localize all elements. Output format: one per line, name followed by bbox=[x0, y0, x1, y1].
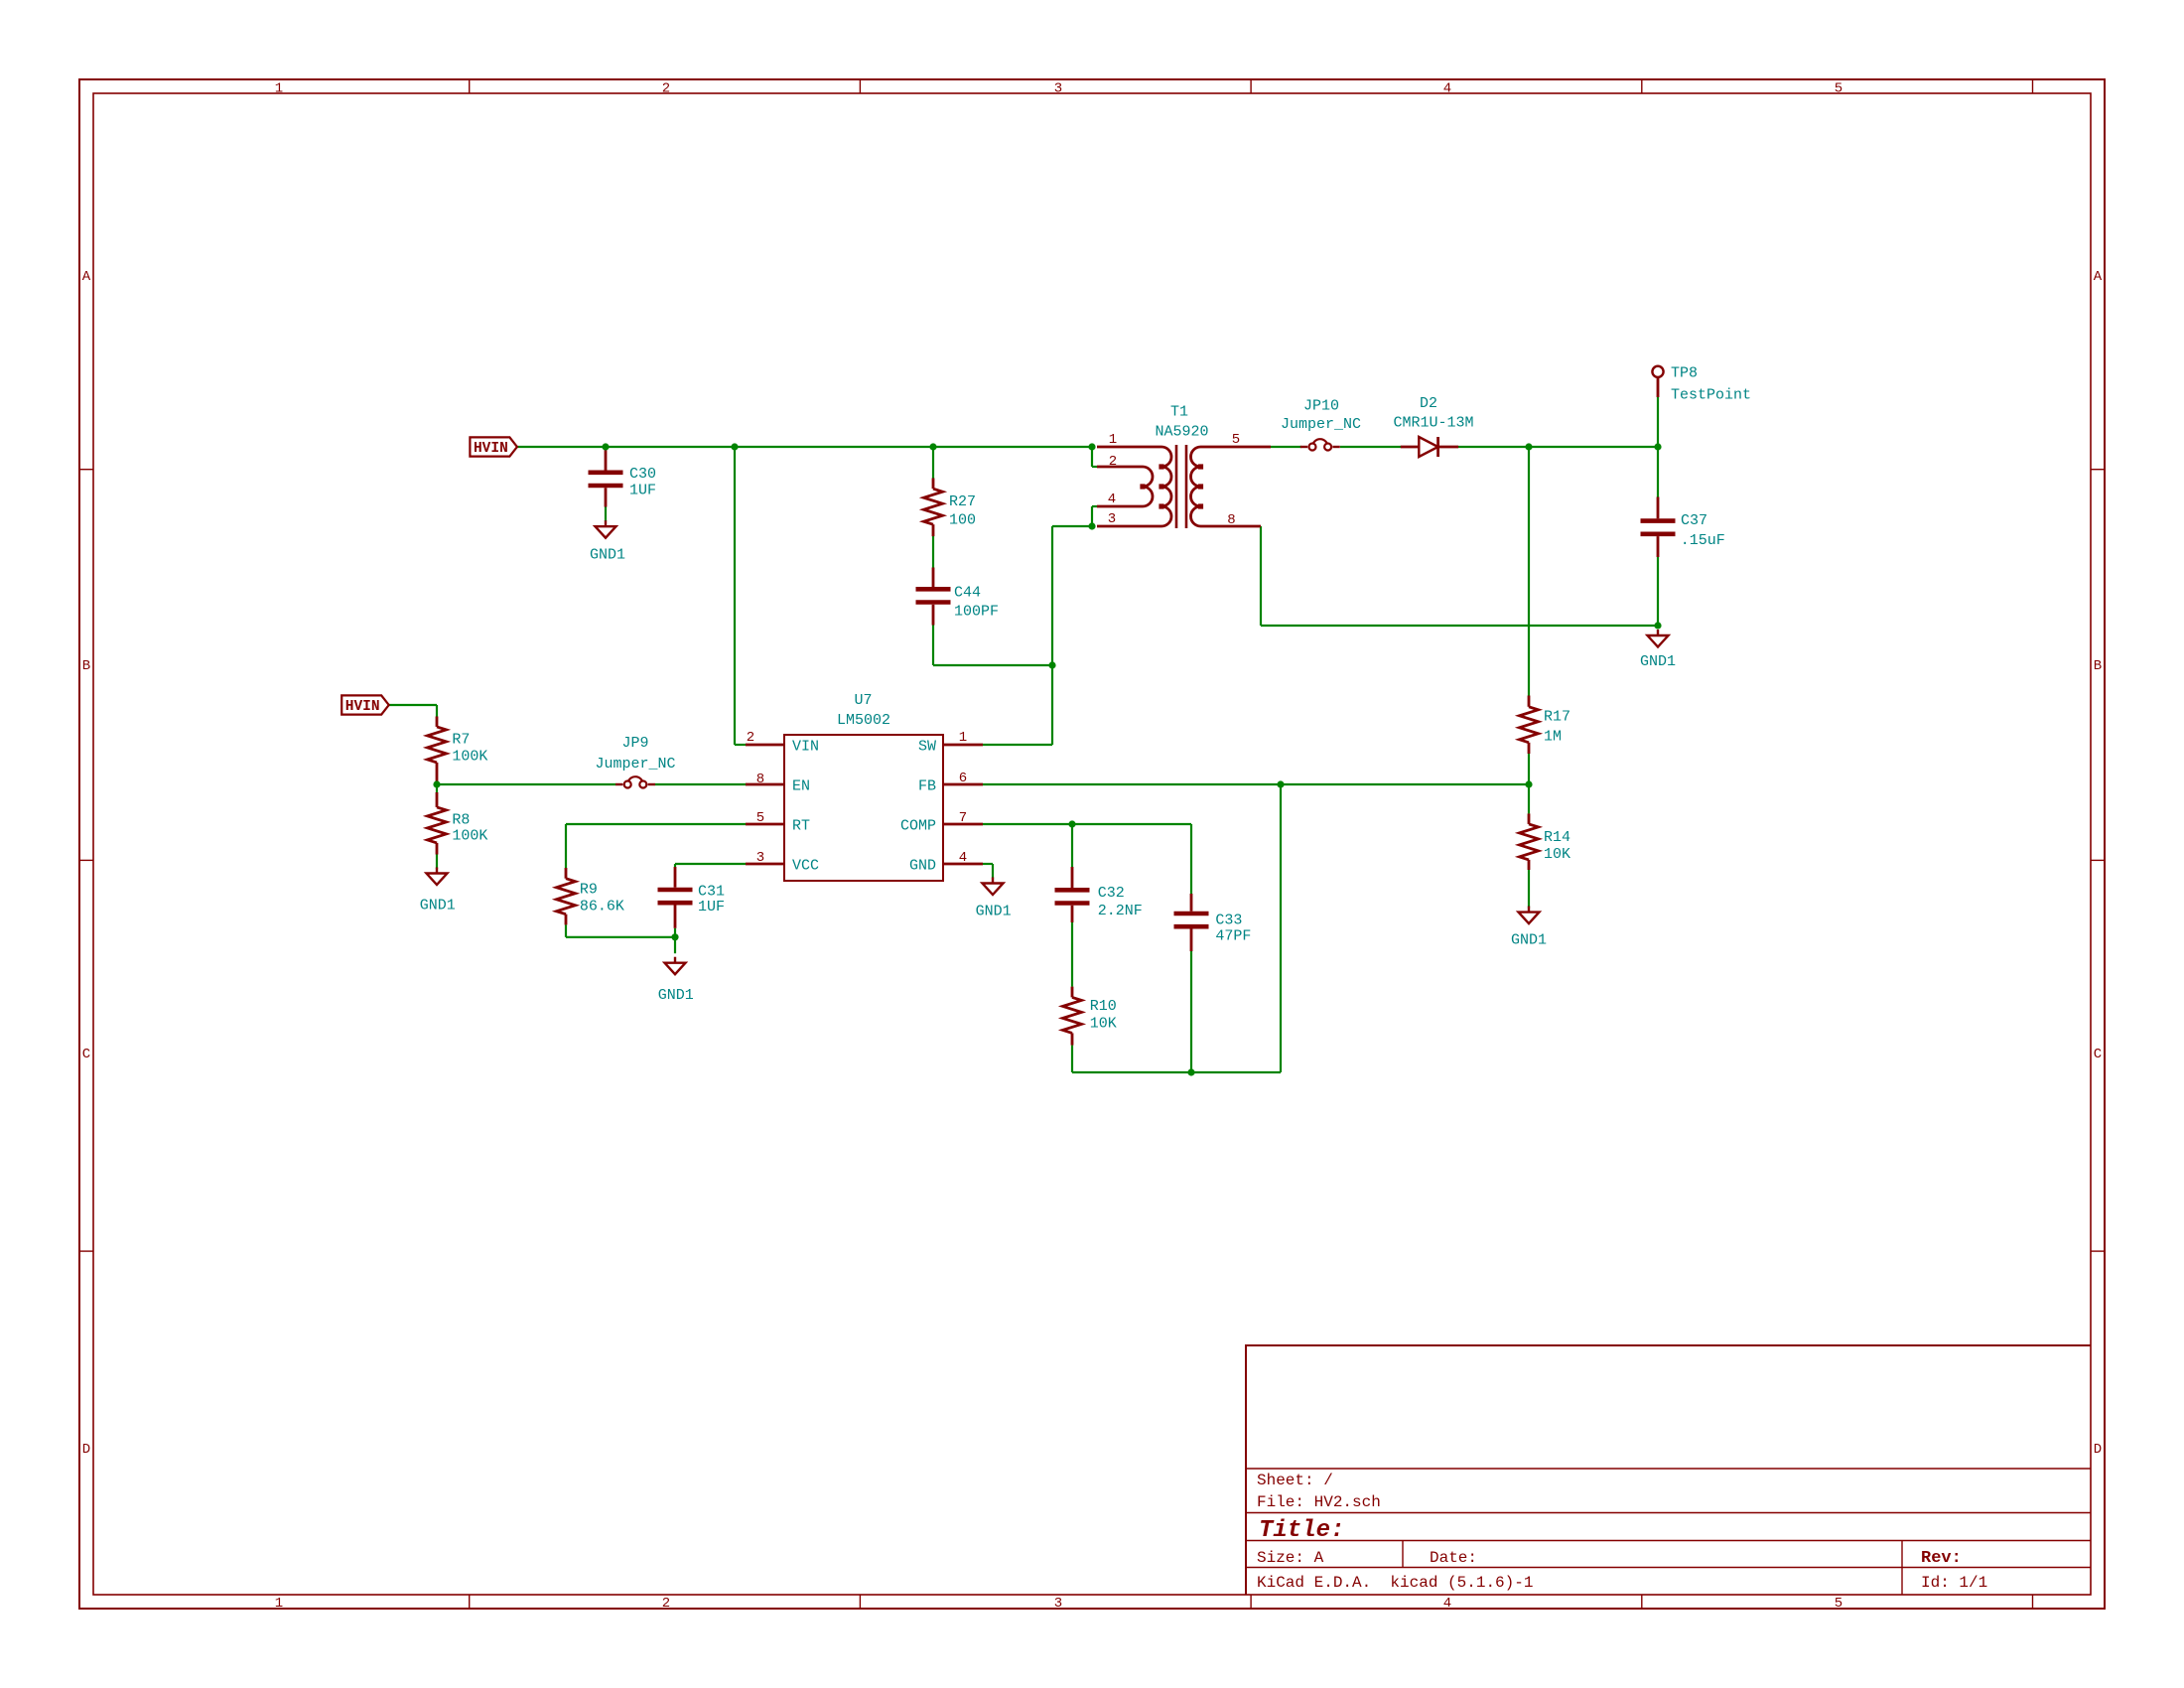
svg-text:GND1: GND1 bbox=[976, 903, 1012, 919]
svg-text:6: 6 bbox=[959, 771, 967, 786]
svg-text:8: 8 bbox=[756, 772, 764, 787]
svg-text:.15uF: .15uF bbox=[1681, 532, 1725, 549]
svg-text:T1: T1 bbox=[1170, 403, 1188, 420]
svg-text:GND: GND bbox=[909, 857, 936, 874]
svg-text:3: 3 bbox=[1108, 511, 1116, 527]
svg-text:1: 1 bbox=[1109, 432, 1117, 448]
svg-text:GND1: GND1 bbox=[658, 987, 694, 1004]
svg-text:1UF: 1UF bbox=[629, 482, 656, 498]
svg-text:U7: U7 bbox=[854, 692, 872, 709]
svg-text:TP8: TP8 bbox=[1671, 364, 1698, 381]
svg-text:A: A bbox=[2094, 269, 2103, 285]
svg-text:Jumper_NC: Jumper_NC bbox=[595, 756, 675, 773]
svg-text:B: B bbox=[82, 658, 90, 674]
svg-text:R17: R17 bbox=[1544, 708, 1570, 725]
svg-text:Jumper_NC: Jumper_NC bbox=[1281, 416, 1361, 433]
svg-text:C37: C37 bbox=[1681, 512, 1707, 529]
svg-text:100: 100 bbox=[949, 511, 976, 528]
svg-text:EN: EN bbox=[792, 777, 810, 794]
svg-text:10K: 10K bbox=[1544, 846, 1570, 863]
svg-text:LM5002: LM5002 bbox=[837, 712, 890, 729]
svg-text:C32: C32 bbox=[1098, 885, 1125, 902]
svg-text:GND1: GND1 bbox=[420, 897, 456, 914]
svg-text:100K: 100K bbox=[452, 749, 487, 766]
svg-text:5: 5 bbox=[1835, 81, 1843, 97]
svg-text:VIN: VIN bbox=[792, 738, 819, 755]
svg-text:HVIN: HVIN bbox=[345, 699, 380, 715]
svg-text:4: 4 bbox=[1443, 1596, 1451, 1612]
svg-text:Title:: Title: bbox=[1259, 1517, 1344, 1544]
svg-text:A: A bbox=[82, 269, 91, 285]
svg-text:NA5920: NA5920 bbox=[1155, 423, 1208, 440]
svg-text:GND1: GND1 bbox=[1511, 931, 1547, 948]
svg-text:4: 4 bbox=[959, 850, 967, 866]
svg-text:Sheet: /: Sheet: / bbox=[1257, 1472, 1333, 1489]
svg-text:47PF: 47PF bbox=[1215, 928, 1251, 945]
svg-text:100PF: 100PF bbox=[954, 603, 999, 620]
svg-text:2: 2 bbox=[1109, 454, 1117, 470]
svg-text:HVIN: HVIN bbox=[474, 441, 508, 457]
svg-text:1: 1 bbox=[275, 1596, 283, 1612]
svg-text:CMR1U-13M: CMR1U-13M bbox=[1393, 415, 1473, 432]
svg-text:JP9: JP9 bbox=[621, 735, 648, 752]
svg-text:JP10: JP10 bbox=[1303, 398, 1339, 415]
svg-text:SW: SW bbox=[918, 738, 936, 755]
svg-text:3: 3 bbox=[1054, 1596, 1062, 1612]
svg-text:C44: C44 bbox=[954, 584, 981, 601]
svg-text:10K: 10K bbox=[1090, 1016, 1117, 1033]
svg-text:2: 2 bbox=[747, 730, 754, 746]
svg-text:KiCad E.D.A. kicad (5.1.6)-1: KiCad E.D.A. kicad (5.1.6)-1 bbox=[1257, 1574, 1533, 1592]
svg-text:Rev:: Rev: bbox=[1921, 1549, 1962, 1568]
svg-text:FB: FB bbox=[918, 777, 936, 794]
svg-text:TestPoint: TestPoint bbox=[1671, 387, 1751, 404]
svg-text:4: 4 bbox=[1443, 81, 1451, 97]
svg-text:D2: D2 bbox=[1420, 395, 1437, 412]
svg-text:R14: R14 bbox=[1544, 829, 1570, 846]
svg-text:GND1: GND1 bbox=[1640, 653, 1676, 670]
svg-text:C31: C31 bbox=[698, 883, 725, 900]
svg-text:1M: 1M bbox=[1544, 729, 1562, 746]
svg-text:R8: R8 bbox=[452, 812, 470, 829]
svg-text:C: C bbox=[2094, 1047, 2102, 1062]
svg-text:3: 3 bbox=[756, 850, 764, 866]
svg-text:Id: 1/1: Id: 1/1 bbox=[1921, 1574, 1987, 1592]
svg-text:4: 4 bbox=[1108, 492, 1116, 507]
svg-text:R10: R10 bbox=[1090, 998, 1117, 1015]
svg-text:File: HV2.sch: File: HV2.sch bbox=[1257, 1493, 1381, 1511]
svg-text:GND1: GND1 bbox=[590, 547, 625, 564]
svg-text:2: 2 bbox=[662, 81, 670, 97]
svg-text:3: 3 bbox=[1054, 81, 1062, 97]
svg-text:C: C bbox=[82, 1047, 90, 1062]
svg-text:1: 1 bbox=[275, 81, 283, 97]
svg-text:C30: C30 bbox=[629, 466, 656, 483]
svg-text:8: 8 bbox=[1227, 512, 1235, 528]
svg-text:5: 5 bbox=[756, 810, 764, 826]
svg-text:2: 2 bbox=[662, 1596, 670, 1612]
svg-text:RT: RT bbox=[792, 817, 810, 834]
svg-text:R9: R9 bbox=[580, 882, 598, 899]
svg-text:D: D bbox=[82, 1442, 90, 1458]
svg-text:100K: 100K bbox=[452, 827, 487, 844]
svg-text:Date:: Date: bbox=[1430, 1549, 1477, 1567]
svg-text:2.2NF: 2.2NF bbox=[1098, 903, 1143, 919]
svg-text:1UF: 1UF bbox=[698, 899, 725, 915]
svg-text:COMP: COMP bbox=[900, 817, 936, 834]
svg-text:Size: A: Size: A bbox=[1257, 1549, 1324, 1567]
svg-text:VCC: VCC bbox=[792, 857, 819, 874]
svg-text:R27: R27 bbox=[949, 493, 976, 510]
svg-text:D: D bbox=[2094, 1442, 2102, 1458]
svg-text:5: 5 bbox=[1835, 1596, 1843, 1612]
svg-text:B: B bbox=[2094, 658, 2102, 674]
svg-text:86.6K: 86.6K bbox=[580, 899, 624, 915]
svg-text:1: 1 bbox=[959, 730, 967, 746]
svg-text:R7: R7 bbox=[452, 731, 470, 748]
svg-text:7: 7 bbox=[959, 810, 967, 826]
svg-text:C33: C33 bbox=[1215, 912, 1242, 928]
svg-text:5: 5 bbox=[1232, 432, 1240, 448]
